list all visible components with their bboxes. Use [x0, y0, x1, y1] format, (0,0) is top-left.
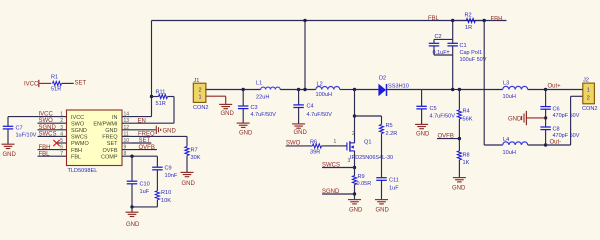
- pin 8 COMP: [122, 155, 132, 157]
- wire node to D2: [355, 89, 379, 91]
- svg-text:C1: C1: [460, 43, 467, 49]
- wire pin4 SWCS: [38, 135, 58, 137]
- resistor R2: [466, 18, 475, 22]
- wire L4 to C8 node: [528, 144, 546, 146]
- svg-text:C9: C9: [165, 165, 172, 171]
- pin 14 IN: [122, 116, 132, 118]
- wire L3 to C6 node: [528, 89, 546, 91]
- svg-text:C10: C10: [140, 182, 150, 188]
- svg-text:1R: 1R: [465, 25, 472, 31]
- svg-text:39R: 39R: [310, 150, 320, 156]
- svg-text:R9: R9: [358, 174, 365, 180]
- wire SGND: [322, 193, 355, 195]
- pin 9 OVFB: [122, 149, 132, 151]
- svg-text:R7: R7: [191, 148, 198, 154]
- svg-text:100uH: 100uH: [316, 92, 332, 98]
- svg-text:C6: C6: [553, 107, 560, 113]
- svg-text:SWO: SWO: [39, 118, 54, 124]
- svg-text:GND: GND: [126, 222, 140, 228]
- svg-text:30K: 30K: [191, 155, 201, 161]
- ground R9: [348, 199, 361, 201]
- svg-text:4.7uF/50V: 4.7uF/50V: [251, 112, 277, 118]
- wire J1 pin1: [206, 95, 226, 97]
- node R4: [458, 88, 461, 91]
- svg-text:SGND: SGND: [322, 189, 340, 195]
- svg-text:3: 3: [348, 158, 351, 164]
- wire riser to input node: [304, 21, 306, 90]
- wire drain to Q1: [354, 116, 356, 143]
- wire C5 to C1 node: [422, 89, 453, 91]
- wire R10 to bottom: [156, 200, 158, 207]
- wire L1 to C4: [280, 89, 298, 91]
- wire pin11 FREQ: [132, 135, 188, 137]
- svg-text:C4: C4: [307, 104, 314, 110]
- inductor L3: [503, 86, 528, 89]
- wire R4 node to L3: [459, 89, 502, 91]
- svg-text:4: 4: [60, 131, 63, 137]
- svg-text:SWO: SWO: [286, 140, 301, 146]
- wire C1 branch upper: [452, 21, 454, 44]
- svg-text:SWCS: SWCS: [322, 162, 340, 168]
- wire C5 branch: [421, 90, 423, 107]
- svg-text:0.05R: 0.05R: [357, 181, 372, 187]
- svg-text:GND: GND: [349, 207, 363, 213]
- svg-text:Out+: Out+: [548, 84, 562, 90]
- node C1C2 bottom: [451, 88, 454, 91]
- ground R7: [181, 171, 194, 173]
- svg-text:L4: L4: [503, 137, 509, 143]
- wire pin9 OVFB: [132, 149, 158, 151]
- inductor L4: [503, 142, 528, 145]
- node switch: [353, 88, 356, 91]
- resistor R4: [457, 110, 461, 119]
- wire J1 pin2: [206, 89, 243, 91]
- resistor R6: [313, 144, 322, 148]
- svg-text:22uH: 22uH: [256, 95, 269, 101]
- connector J2: [583, 83, 595, 104]
- wire R1 to SET: [62, 82, 74, 84]
- wire C4 to L2: [299, 89, 316, 91]
- svg-text:1: 1: [587, 87, 590, 93]
- svg-text:Q1: Q1: [364, 140, 371, 146]
- wire C3 branch: [242, 90, 244, 106]
- wire C6 to mid: [545, 109, 547, 127]
- pin 2 SWO: [57, 122, 67, 124]
- wire C3 gnd: [242, 109, 244, 123]
- op-amp U1 TLD5098EL body: [67, 110, 123, 166]
- wire C5 gnd: [421, 109, 423, 124]
- node drain branch: [353, 114, 356, 117]
- pin 13 EN/PWMI: [122, 122, 132, 124]
- svg-text:C8: C8: [553, 127, 560, 133]
- node C6: [544, 88, 547, 91]
- wire pin14 IN: [132, 116, 152, 118]
- wire R5 top lead: [381, 116, 383, 124]
- pin 1 IVCC: [57, 116, 67, 118]
- wire C7 to gnd: [7, 129, 9, 144]
- wire C10 to bottom: [131, 184, 133, 207]
- wire Q1 gate: [337, 145, 347, 147]
- node riser: [303, 88, 306, 91]
- capacitor C11: [376, 177, 387, 179]
- svg-text:SWO: SWO: [71, 121, 85, 127]
- svg-text:SGND: SGND: [39, 125, 57, 131]
- wire C8 to Out-: [545, 130, 547, 145]
- ground comp: [126, 211, 139, 213]
- pin 6 FBH: [57, 149, 67, 151]
- wire pin12 GND: [132, 129, 156, 131]
- svg-text:J1: J1: [194, 78, 200, 84]
- svg-text:EN: EN: [138, 118, 146, 124]
- capacitor C10: [127, 180, 138, 182]
- wire FBH stub: [484, 20, 506, 22]
- svg-text:10nF: 10nF: [165, 173, 178, 179]
- inductor L1: [261, 87, 281, 89]
- pin 7 FBL: [57, 155, 67, 157]
- node OVFB: [458, 137, 461, 140]
- diode D2: [378, 84, 386, 97]
- svg-text:10K: 10K: [161, 198, 171, 204]
- node SWCS: [353, 166, 356, 169]
- wire pin6 FBH: [38, 149, 58, 151]
- wire Q1 source: [354, 151, 356, 168]
- wire R5 to C11: [381, 134, 383, 178]
- svg-text:GND: GND: [452, 185, 466, 191]
- capacitor C3: [238, 105, 249, 107]
- svg-text:470pF 50V: 470pF 50V: [553, 133, 580, 139]
- ground C3: [237, 122, 250, 124]
- svg-text:14: 14: [124, 112, 130, 118]
- svg-text:C7: C7: [16, 126, 23, 132]
- node R11 IN: [150, 95, 153, 98]
- svg-text:SGND: SGND: [71, 128, 87, 134]
- svg-text:TLD5098EL: TLD5098EL: [68, 168, 98, 174]
- wire comp bottom: [132, 206, 157, 208]
- svg-text:R5: R5: [386, 123, 393, 129]
- pin 4 SWCS: [57, 135, 67, 137]
- svg-text:10uH: 10uH: [503, 150, 516, 156]
- svg-text:GND: GND: [105, 128, 117, 134]
- wire C4 branch: [298, 90, 300, 105]
- wire pin2 SWO: [38, 122, 58, 124]
- svg-text:FBL: FBL: [428, 16, 440, 22]
- svg-text:PWMO: PWMO: [71, 141, 89, 147]
- svg-text:R2: R2: [465, 13, 472, 19]
- chassis ground: [525, 111, 527, 125]
- svg-text:100uF 50V: 100uF 50V: [460, 57, 487, 63]
- wire pin7 FBL: [38, 155, 58, 157]
- svg-text:GND: GND: [416, 131, 430, 137]
- svg-text:COMP: COMP: [101, 154, 118, 160]
- svg-text:GND: GND: [239, 130, 253, 136]
- wire C4 gnd: [298, 107, 300, 123]
- svg-text:13: 13: [124, 118, 130, 124]
- svg-text:1: 1: [334, 139, 337, 145]
- node mid C6 C8: [544, 116, 547, 119]
- wire IN riser: [151, 21, 153, 117]
- resistor R11: [159, 94, 168, 98]
- node C3: [242, 88, 245, 91]
- wire OVFB stub: [437, 138, 459, 140]
- svg-text:FBH: FBH: [71, 148, 82, 154]
- svg-text:SWCS: SWCS: [39, 131, 57, 137]
- no connect X pin5: [53, 140, 59, 146]
- wire IVCC down: [7, 117, 9, 127]
- svg-text:R8: R8: [463, 153, 470, 159]
- wire C11 gnd: [381, 180, 383, 199]
- svg-text:FBH: FBH: [491, 16, 503, 22]
- svg-text:GND: GND: [508, 116, 522, 122]
- ground C5: [415, 123, 428, 125]
- pin 3 SGND: [57, 129, 67, 131]
- resistor R8: [457, 151, 461, 160]
- wire C9 to R10: [156, 170, 158, 191]
- svg-text:8: 8: [124, 151, 127, 157]
- capacitor C1: [447, 42, 458, 44]
- svg-text:FREQ: FREQ: [138, 132, 155, 138]
- ground C4: [292, 123, 305, 125]
- wire pin1 IVCC: [8, 116, 57, 118]
- svg-text:10: 10: [124, 138, 130, 144]
- svg-text:OVFB: OVFB: [103, 148, 118, 154]
- capacitor C8: [540, 126, 551, 128]
- wire R7 to gnd: [186, 156, 188, 173]
- resistor R5: [379, 125, 383, 134]
- svg-text:L1: L1: [256, 81, 262, 87]
- svg-text:+: +: [446, 50, 450, 56]
- svg-text:FBL: FBL: [39, 151, 51, 157]
- svg-text:IVCC: IVCC: [24, 81, 39, 87]
- svg-text:2.2R: 2.2R: [386, 131, 398, 137]
- wire Out- left: [484, 144, 503, 146]
- svg-text:1: 1: [199, 94, 202, 100]
- wire top rail FBL: [152, 20, 453, 22]
- connector J1: [193, 83, 206, 102]
- wire to gnd R9: [354, 194, 356, 199]
- wire COMP branch right down: [156, 156, 158, 167]
- wire drain branch: [354, 90, 356, 117]
- wire FBH drop: [483, 21, 485, 146]
- wire node to R5: [355, 115, 382, 117]
- svg-text:4.7uF/50V: 4.7uF/50V: [430, 114, 456, 120]
- svg-text:1uF/10V: 1uF/10V: [16, 133, 37, 139]
- wire D2 to C5: [386, 89, 421, 91]
- svg-text:IVCC: IVCC: [71, 115, 84, 121]
- inductor L2: [316, 87, 340, 90]
- wire pin10 SET: [132, 142, 152, 144]
- svg-text:GND: GND: [182, 181, 196, 187]
- svg-text:2: 2: [199, 88, 202, 94]
- wire to J2 pin1: [546, 89, 583, 91]
- svg-text:GND: GND: [376, 207, 390, 213]
- svg-text:SS3H10: SS3H10: [388, 84, 409, 90]
- ground C11: [375, 199, 388, 201]
- node C8: [544, 143, 547, 146]
- wire SWO to R6: [286, 145, 313, 147]
- svg-text:IVCC: IVCC: [39, 112, 54, 118]
- resistor R9: [352, 176, 356, 185]
- wire R11 to EN: [173, 97, 175, 124]
- node FBH: [483, 19, 486, 22]
- wire to R4 node: [453, 89, 460, 91]
- wire SWCS: [322, 167, 355, 169]
- svg-text:GND: GND: [3, 152, 17, 158]
- svg-text:R11: R11: [156, 90, 166, 96]
- svg-text:1: 1: [60, 112, 63, 118]
- svg-text:Cap Pol1: Cap Pol1: [460, 50, 483, 56]
- pin 12 GND: [122, 129, 132, 131]
- capacitor C4: [293, 104, 304, 106]
- svg-text:L3: L3: [503, 81, 509, 87]
- svg-text:J2: J2: [583, 77, 589, 83]
- wire L2 to node: [340, 89, 355, 91]
- svg-text:5: 5: [60, 138, 63, 144]
- wire chassis gnd: [527, 117, 546, 119]
- svg-text:OVFB: OVFB: [438, 134, 454, 140]
- svg-text:C2: C2: [435, 34, 442, 40]
- wire Out- to J2: [546, 144, 571, 146]
- capacitor C6: [540, 106, 551, 108]
- svg-text:R10: R10: [161, 190, 171, 196]
- ground C7: [2, 143, 15, 145]
- capacitor C2 loop: [434, 38, 453, 40]
- svg-text:1uF: 1uF: [140, 189, 150, 195]
- svg-text:GND: GND: [294, 130, 308, 136]
- node C4: [297, 88, 300, 91]
- resistor R7: [185, 147, 189, 156]
- svg-text:FBL: FBL: [71, 154, 81, 160]
- capacitor C5: [416, 105, 427, 107]
- wire FREQ to R7: [186, 136, 188, 146]
- svg-text:0.1uF: 0.1uF: [433, 50, 448, 56]
- resistor R10: [155, 191, 159, 200]
- wire R9 to SGND node: [354, 184, 356, 194]
- svg-text:SET: SET: [107, 141, 118, 147]
- node FBL C1C2: [451, 19, 454, 22]
- svg-text:1uF: 1uF: [389, 186, 399, 192]
- svg-text:CON2: CON2: [193, 105, 209, 111]
- svg-text:1K: 1K: [463, 160, 470, 166]
- node top rail to L2: [303, 19, 306, 22]
- node comp gnd: [130, 205, 133, 208]
- ground pin12 sideways: [155, 126, 157, 134]
- wire to gnd comp: [131, 207, 133, 212]
- svg-text:51R: 51R: [156, 101, 166, 107]
- svg-text:FBH: FBH: [39, 145, 51, 151]
- pin 5 PWMO: [57, 142, 67, 144]
- svg-text:L2: L2: [317, 82, 323, 88]
- pin 10 SET: [122, 142, 132, 144]
- svg-text:R1: R1: [51, 74, 58, 80]
- svg-text:R6: R6: [310, 139, 317, 145]
- svg-text:7: 7: [60, 151, 63, 157]
- wire COMP branch left down: [131, 156, 133, 181]
- ground J1: [219, 103, 232, 105]
- svg-text:SET: SET: [75, 80, 87, 86]
- svg-text:51R: 51R: [51, 86, 61, 92]
- svg-text:10uH: 10uH: [503, 94, 516, 100]
- svg-text:EN/PWMI: EN/PWMI: [93, 121, 118, 127]
- svg-text:12: 12: [124, 125, 130, 131]
- svg-text:56K: 56K: [463, 116, 473, 122]
- wire pin13 EN: [132, 122, 175, 124]
- wire J2 pin2: [571, 95, 583, 97]
- wire rail to L1: [243, 89, 261, 91]
- svg-text:GND: GND: [221, 111, 235, 117]
- svg-text:2: 2: [587, 95, 590, 101]
- svg-text:6: 6: [60, 145, 63, 151]
- svg-text:R4: R4: [463, 108, 470, 114]
- svg-text:2: 2: [352, 131, 355, 137]
- wire source to R9: [354, 168, 356, 176]
- transistor Q1: [350, 142, 355, 144]
- svg-text:IN: IN: [112, 115, 118, 121]
- wire pin3 SGND: [38, 129, 58, 131]
- svg-text:C5: C5: [430, 106, 437, 112]
- svg-text:9: 9: [124, 145, 127, 151]
- svg-text:470pF 50V: 470pF 50V: [553, 113, 580, 119]
- svg-text:C3: C3: [251, 105, 258, 111]
- svg-text:4.7uF/50V: 4.7uF/50V: [307, 112, 333, 118]
- svg-text:11: 11: [124, 131, 129, 137]
- svg-text:GND: GND: [163, 128, 177, 134]
- resistor R1: [53, 81, 62, 85]
- pin 11 FREQ: [122, 135, 132, 137]
- svg-text:OVFB: OVFB: [139, 145, 155, 151]
- wire IVCC to R1: [39, 82, 51, 84]
- wire C6 branch: [545, 90, 547, 107]
- wire C1 branch lower: [452, 46, 454, 90]
- svg-text:SET: SET: [139, 138, 151, 144]
- node SGND: [353, 192, 356, 195]
- svg-text:D2: D2: [379, 76, 386, 82]
- capacitor C7: [3, 125, 14, 127]
- node COMP: [130, 155, 133, 158]
- svg-text:CON2: CON2: [582, 106, 598, 112]
- wire pin8 COMP: [132, 155, 158, 157]
- svg-text:3: 3: [60, 125, 63, 131]
- svg-text:SWCS: SWCS: [71, 135, 88, 141]
- svg-text:C11: C11: [389, 178, 399, 184]
- svg-text:IPD25N06S4L-30: IPD25N06S4L-30: [350, 155, 393, 161]
- wire top rail FBL right: [453, 20, 485, 22]
- svg-text:FREQ: FREQ: [102, 135, 118, 141]
- ground R8: [453, 177, 466, 179]
- capacitor C9: [152, 166, 163, 168]
- svg-text:2: 2: [60, 118, 63, 124]
